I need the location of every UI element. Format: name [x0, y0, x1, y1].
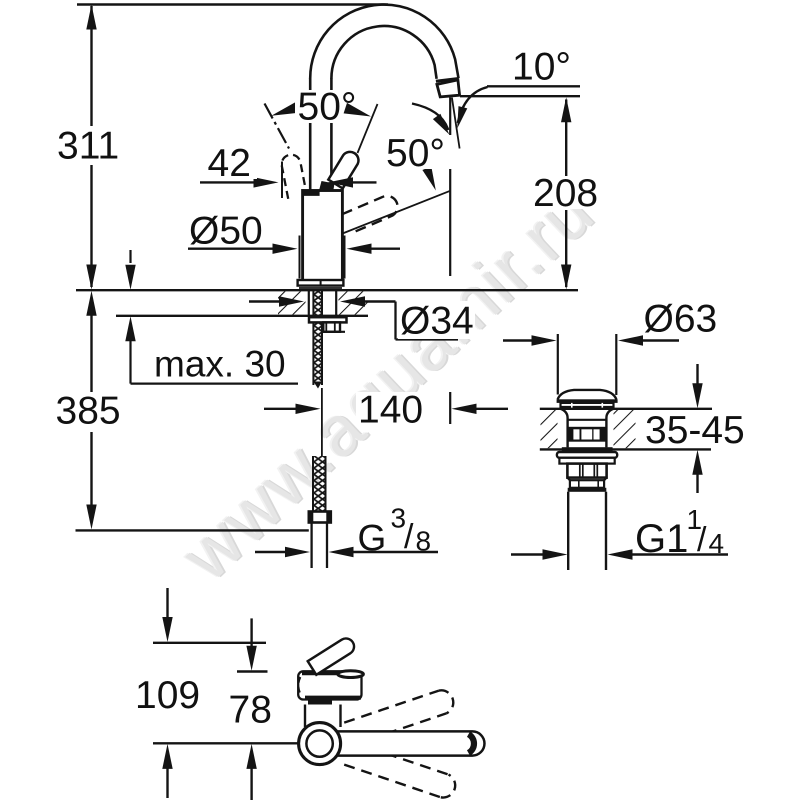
- svg-text:78: 78: [229, 689, 272, 732]
- svg-text:385: 385: [56, 390, 121, 433]
- svg-text:208: 208: [533, 172, 598, 215]
- svg-text:G: G: [358, 518, 387, 559]
- svg-text:/: /: [697, 521, 707, 559]
- svg-text:G1: G1: [635, 517, 688, 561]
- svg-text:140: 140: [358, 389, 423, 432]
- svg-text:10°: 10°: [512, 46, 571, 89]
- svg-text:Ø34: Ø34: [400, 300, 474, 343]
- svg-text:Ø50: Ø50: [189, 210, 263, 253]
- svg-text:max. 30: max. 30: [154, 344, 286, 385]
- svg-text:/: /: [404, 518, 414, 556]
- svg-text:35-45: 35-45: [645, 409, 745, 452]
- svg-text:8: 8: [416, 526, 432, 557]
- svg-text:Ø63: Ø63: [644, 298, 718, 341]
- svg-text:42: 42: [208, 142, 251, 185]
- svg-text:109: 109: [135, 674, 200, 717]
- svg-text:4: 4: [709, 528, 725, 559]
- svg-text:311: 311: [57, 125, 119, 168]
- svg-text:50°: 50°: [386, 132, 445, 175]
